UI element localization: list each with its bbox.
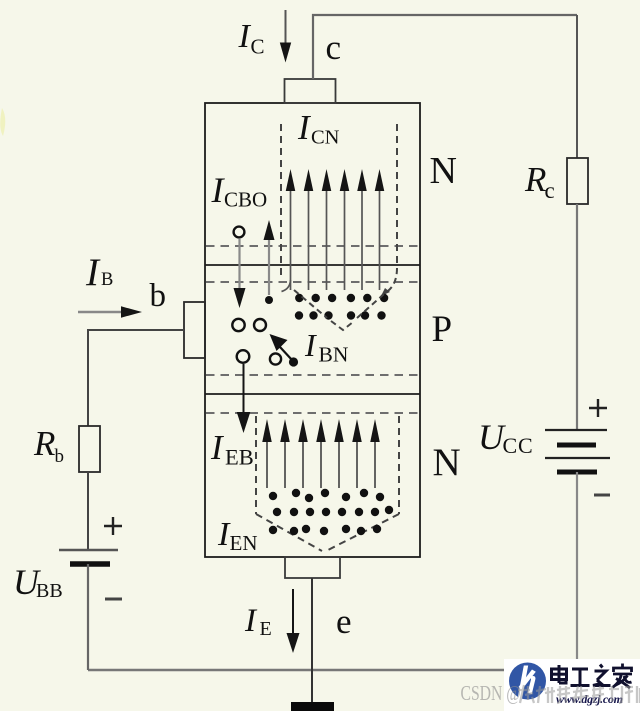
wire base to left branch	[88, 330, 184, 426]
watermark white panel	[504, 659, 640, 711]
svg-text:c: c	[326, 28, 342, 67]
csdn watermark cjk handle strokes	[518, 685, 640, 703]
label ICBO	[211, 170, 268, 212]
label N emitter region	[433, 441, 461, 484]
label Ucc	[478, 417, 533, 458]
junction dashed line BE lower	[206, 412, 419, 414]
emitter electron flow arrows (IEN)	[262, 419, 380, 488]
IE current arrow	[287, 589, 300, 653]
ICBO hole circle	[234, 227, 245, 238]
svg-text:CN: CN	[311, 127, 340, 149]
dashed flow diagonals in base	[294, 290, 384, 330]
logo text dian (电)	[552, 665, 567, 683]
ICBO hole drift arrow down	[234, 239, 246, 308]
dashed flow boundary right (collector)	[381, 124, 397, 296]
label IE	[244, 603, 272, 640]
svg-text:c: c	[545, 178, 555, 203]
svg-text:B: B	[101, 270, 113, 290]
svg-text:BB: BB	[36, 580, 63, 602]
collector electron flow arrows (ICN)	[286, 169, 385, 290]
IB current arrow	[78, 306, 142, 317]
dashed funnel emitter	[256, 416, 399, 551]
label N collector region	[430, 150, 457, 192]
label ICN	[297, 108, 340, 149]
label IEN	[217, 516, 258, 555]
logo text zhi (之)	[593, 665, 611, 686]
logo circle with lightning bolt	[509, 663, 546, 700]
resistor Rc	[567, 158, 588, 204]
svg-text:I: I	[244, 603, 258, 639]
svg-text:b: b	[55, 446, 65, 467]
hole circles in base region	[232, 319, 281, 365]
dashed flow boundary left (collector)	[280, 124, 282, 280]
transistor body box	[205, 103, 420, 557]
label Rc	[524, 160, 555, 203]
svg-text:CC: CC	[503, 433, 534, 458]
bottom rail wire	[88, 669, 577, 671]
label IBN	[304, 327, 349, 367]
svg-text:CBO: CBO	[224, 188, 267, 212]
label Ubb	[13, 562, 63, 602]
wire Rc to Ucc	[576, 204, 578, 430]
label terminal c	[326, 28, 342, 67]
logo text gong (工)	[571, 669, 590, 686]
svg-text:C: C	[251, 35, 265, 59]
wire collector to top rail	[313, 15, 577, 79]
svg-text:R: R	[524, 160, 546, 199]
svg-text:CSDN @: CSDN @	[461, 682, 521, 706]
svg-text:BN: BN	[319, 343, 349, 367]
wire Ubb to bottom rail	[87, 564, 89, 670]
electron dots in base region	[265, 294, 388, 320]
IC current arrow	[280, 10, 291, 63]
junction dashed line CB upper	[206, 245, 419, 247]
logo text jia (家)	[613, 664, 633, 689]
collector contact	[285, 79, 336, 103]
label terminal e	[336, 602, 352, 641]
leftmost shaft curl	[282, 280, 291, 292]
minus sign Ubb	[105, 598, 122, 601]
label IEB	[210, 428, 254, 470]
base contact	[184, 302, 205, 358]
minus sign Ucc	[594, 494, 610, 497]
wire emitter to ground	[311, 578, 313, 703]
plus sign Ubb	[104, 517, 122, 535]
label P base region	[432, 309, 453, 350]
svg-text:EN: EN	[230, 531, 258, 555]
svg-text:EB: EB	[225, 445, 254, 470]
battery Ucc	[545, 430, 610, 472]
wire Rb to Ubb	[87, 472, 89, 550]
battery Ubb	[59, 550, 118, 564]
logo url www.dgzj.com	[556, 692, 623, 706]
svg-text:R: R	[33, 424, 55, 463]
label terminal b	[150, 278, 167, 314]
plus sign Ucc	[589, 399, 607, 417]
label Rb	[33, 424, 64, 467]
resistor Rb	[79, 426, 100, 472]
junction solid line BE	[205, 393, 420, 395]
svg-text:I: I	[304, 327, 317, 363]
svg-text:E: E	[260, 618, 272, 640]
electron dots in emitter region	[269, 489, 393, 535]
ground	[291, 702, 334, 711]
IBN recombination arrow	[270, 334, 299, 367]
faint yellow artifact left edge	[0, 108, 5, 136]
svg-text:I: I	[238, 18, 252, 55]
svg-text:e: e	[336, 602, 352, 641]
label IC	[238, 18, 265, 59]
wire Ucc to bottom rail	[576, 472, 578, 670]
ICBO electron drift arrow up	[264, 220, 275, 295]
junction dashed line BE upper	[206, 374, 419, 376]
emitter contact	[285, 557, 340, 578]
svg-text:N: N	[430, 150, 457, 192]
wire top rail down to Rc	[576, 15, 578, 158]
junction solid line CB	[205, 264, 420, 266]
svg-text:N: N	[433, 441, 461, 484]
csdn watermark text	[461, 682, 521, 706]
svg-text:P: P	[432, 309, 453, 350]
IEB hole injection arrow down	[237, 364, 251, 433]
junction dashed line CB lower	[206, 281, 419, 283]
svg-text:I: I	[85, 251, 101, 294]
svg-text:b: b	[150, 278, 167, 314]
label IB	[85, 251, 113, 294]
